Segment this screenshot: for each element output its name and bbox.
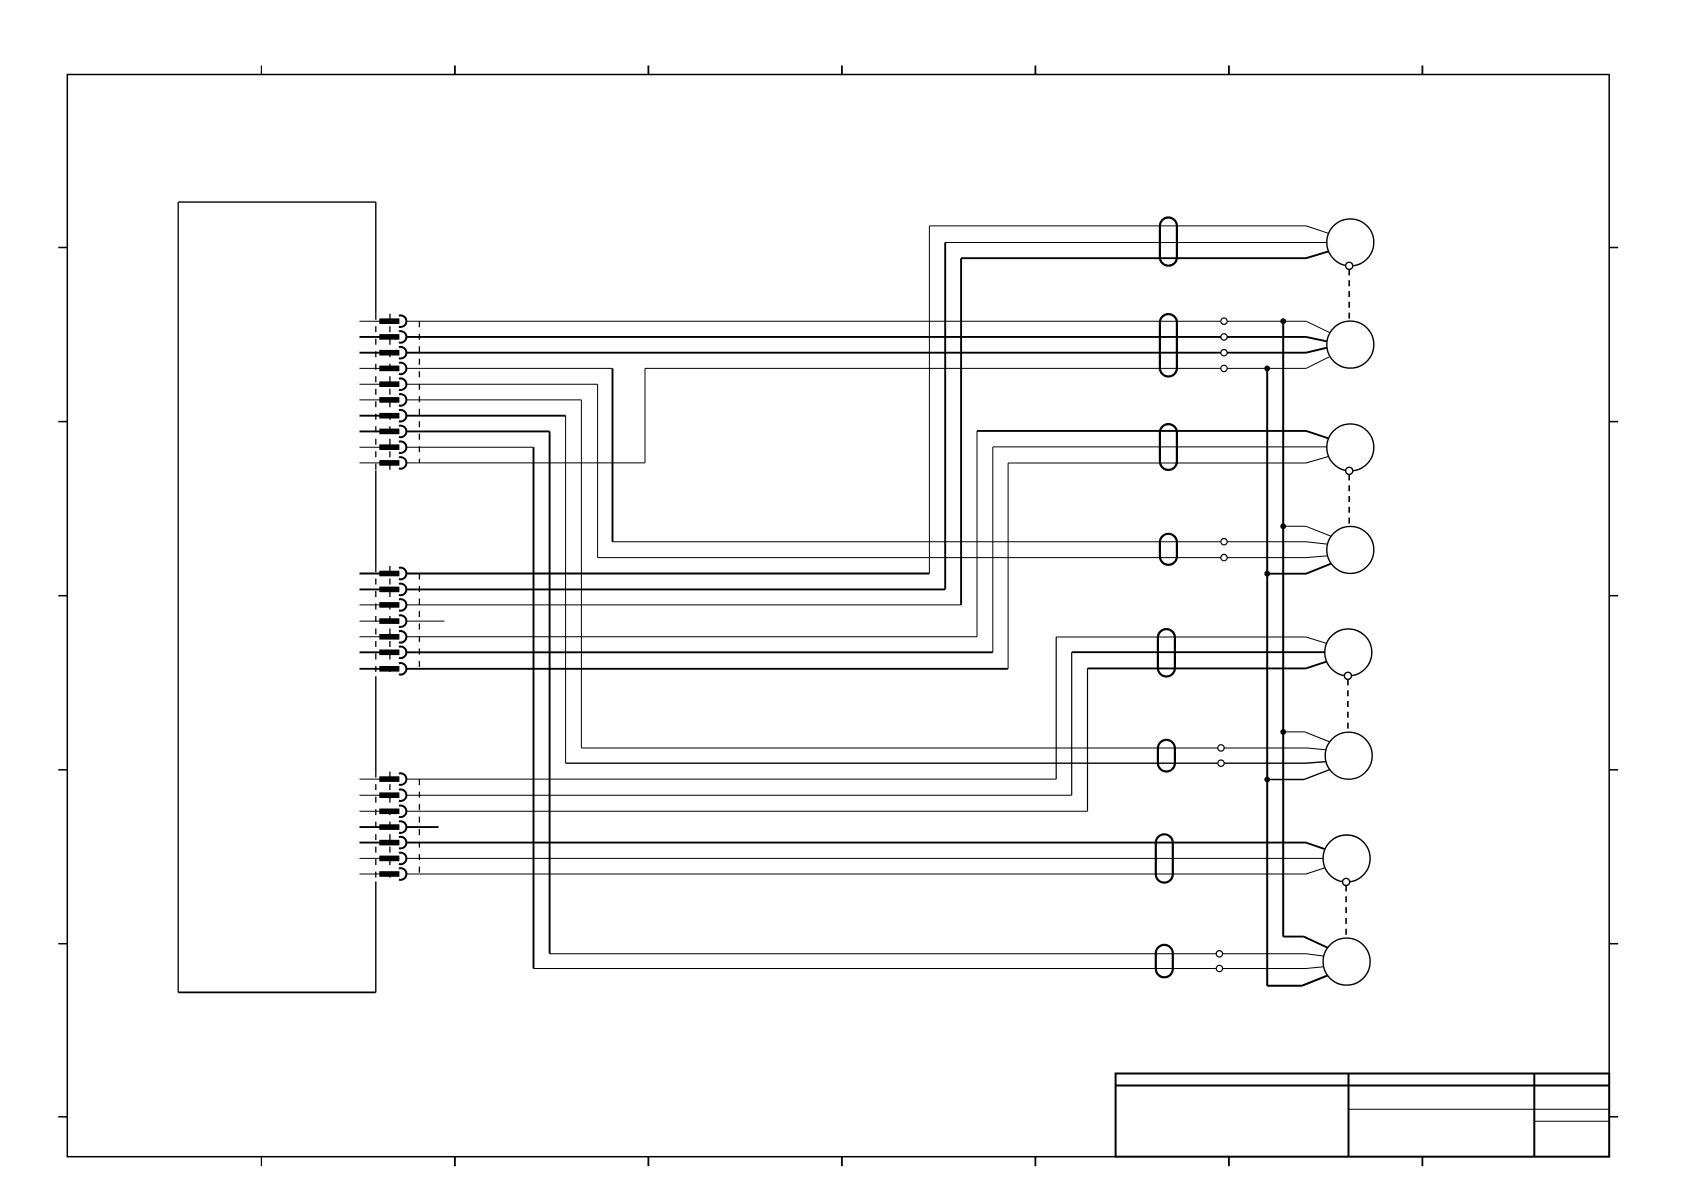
wire riser G3-3/B5	[1087, 668, 1089, 811]
wire riser G1-10/B2	[644, 368, 646, 463]
dashed link B1-B2	[1348, 269, 1350, 321]
wire G1-8 east	[406, 430, 550, 432]
wire to lamp B1 mid	[945, 242, 1327, 244]
dashed link B7-B8	[1345, 886, 1347, 939]
lamp B2	[1327, 321, 1374, 368]
connector pin G2-5	[360, 631, 407, 643]
wire slant B2 w4	[1306, 357, 1329, 369]
wire riser G2-2/B1	[944, 243, 946, 590]
wire to lamp B6 mid2	[566, 762, 1306, 764]
wire to lamp B5 mid	[1072, 651, 1325, 653]
wire to lamp B6 mid1	[581, 747, 1306, 749]
wire slant B8 mid2	[1306, 967, 1325, 969]
bulb terminal circle B5-B6	[1344, 672, 1351, 679]
wire riser G3-2/B5	[1071, 652, 1073, 795]
wire to lamp B3 mid	[993, 446, 1327, 448]
inline connector C1	[1160, 218, 1177, 266]
wire G3-7 to lamp B7	[406, 873, 1306, 875]
wire slant B6 mid2	[1306, 762, 1327, 764]
wire slant B6 tap-top	[1305, 732, 1333, 743]
wire G2-4 stub	[406, 620, 445, 622]
lamp B7	[1323, 835, 1370, 882]
wire G3-2 east	[406, 794, 1072, 796]
wire G2-2 east	[406, 588, 945, 590]
wire to lamp B4 mid2	[598, 557, 1306, 559]
connector pin G1-7	[360, 410, 407, 422]
wire slant B8 tap-top	[1304, 937, 1331, 950]
connector pin G2-6	[360, 646, 407, 658]
dashed link B3-B4	[1348, 474, 1350, 526]
wire G3-3 east	[406, 810, 1088, 812]
splice circle	[1221, 554, 1227, 560]
dashed link B5-B6	[1347, 679, 1349, 732]
splice circle	[1221, 539, 1227, 545]
splice circle	[1221, 334, 1227, 340]
bus wire B vertical	[1266, 368, 1268, 985]
lamp B4	[1327, 526, 1374, 573]
wire riser G3-1/B5	[1055, 637, 1057, 779]
wire drop G1-8/B8	[549, 431, 551, 953]
bulb terminal circle B7-B8	[1343, 878, 1350, 885]
wire slant B2 w2	[1306, 337, 1327, 341]
splice circle	[1218, 760, 1224, 766]
junction bus A / B6 tap	[1280, 729, 1286, 735]
wire slant B3 bottom	[1306, 456, 1332, 463]
connector pin G1-3	[360, 347, 407, 359]
wire G1-4 east	[406, 367, 613, 369]
wire to lamp B8 mid1	[550, 953, 1306, 955]
wire drop G1-6/B6	[580, 400, 582, 748]
wire slant B5 top	[1306, 637, 1330, 644]
wire to lamp B2 pin4	[645, 367, 1306, 369]
connector pin G1-1	[360, 315, 407, 327]
wire G3-5 to lamp B7	[406, 842, 1306, 844]
wire G2-5 east	[406, 636, 977, 638]
connector pin G1-8	[360, 426, 407, 438]
lamp B8	[1323, 938, 1370, 985]
wire slant B4 tap-top	[1306, 526, 1335, 537]
connector pin G3-7	[360, 868, 407, 880]
splice circle	[1216, 965, 1222, 971]
wire to lamp B8 mid2	[534, 968, 1307, 970]
bus wire A vertical	[1282, 321, 1284, 936]
inline connector C3	[1160, 424, 1177, 470]
connector pin G3-5	[360, 837, 407, 849]
wire slant B2 w1	[1306, 321, 1329, 332]
connector pin G1-10	[360, 457, 407, 469]
inline connector C8	[1156, 945, 1173, 977]
wire to lamp B4 mid1	[613, 541, 1307, 543]
wire G2-7 east	[406, 668, 1008, 670]
wire G1-6 east	[406, 399, 582, 401]
splice circle	[1221, 318, 1227, 324]
wire bus tap to lamp B4 top	[1283, 525, 1306, 527]
connector pin G1-4	[360, 363, 407, 375]
connector pin G2-2	[360, 584, 407, 596]
wire G1-2 to lamp B2	[406, 336, 1306, 338]
wire slant B1 top	[1306, 226, 1332, 234]
wire slant B3 top	[1306, 431, 1332, 440]
wire to lamp B1 top	[929, 225, 1306, 227]
connector pin G1-6	[360, 394, 407, 406]
splice circle	[1221, 350, 1227, 356]
inline connector C5	[1158, 629, 1175, 676]
connector pin G1-9	[360, 441, 407, 453]
junction bus A / B2 wire	[1280, 318, 1286, 324]
inline connector C2	[1160, 314, 1177, 376]
lamp B6	[1325, 732, 1372, 779]
connector pin G2-3	[360, 599, 407, 611]
junction bus B / B4 tap	[1264, 571, 1270, 577]
connector pin G3-4	[360, 821, 407, 833]
junction bus B / B6 tap	[1264, 777, 1270, 783]
wire to lamp B5 bottom	[1088, 667, 1307, 669]
splice circle	[1221, 365, 1227, 371]
wire slant B4 tap-bottom	[1306, 562, 1335, 573]
wire slant B2 w3	[1306, 348, 1327, 353]
connector pin G2-7	[360, 663, 407, 675]
inline connector C4	[1160, 534, 1177, 565]
wire bus elbow to lamp B8 top	[1283, 936, 1304, 938]
wire drop G1-7/B6	[565, 416, 567, 764]
wire G1-1 to lamp B2	[406, 320, 1306, 322]
wire G1-7 east	[406, 415, 566, 417]
wire riser G2-6/B3	[992, 447, 994, 652]
connector pin G3-6	[360, 853, 407, 865]
wire G3-6 to lamp B7	[406, 857, 1323, 859]
wire drop G1-9/B8	[533, 447, 535, 968]
wire riser G2-1/B1	[928, 226, 930, 574]
wire G2-6 east	[406, 651, 993, 653]
connector pin G2-1	[360, 568, 407, 580]
wire slant B6 tap-bottom	[1304, 768, 1333, 779]
connector pin G3-1	[360, 773, 407, 785]
wire G2-3 east	[406, 604, 961, 606]
connector pin G3-3	[360, 805, 407, 817]
connector pin G1-5	[360, 378, 407, 390]
wire slant B4 mid1	[1306, 542, 1328, 545]
wire drop G1-5/B4	[597, 384, 599, 557]
inline connector C7	[1156, 834, 1173, 882]
lamp B3	[1327, 424, 1374, 471]
wire slant B7 bottom	[1306, 867, 1328, 874]
junction bus A / B4 tap	[1280, 523, 1286, 529]
wire slant B6 mid1	[1306, 748, 1327, 750]
splice circle	[1216, 951, 1222, 957]
wire bus elbow to lamp B8 bottom	[1267, 985, 1302, 987]
wire G3-4 stub	[406, 826, 439, 828]
wire slant B8 mid1	[1306, 954, 1325, 957]
wire drop G1-4/B4	[612, 368, 614, 541]
wire G1-10 east	[406, 462, 645, 464]
wire G1-9 east	[406, 446, 534, 448]
lamp B5	[1325, 629, 1372, 676]
wire slant B8 tap-bottom	[1302, 974, 1331, 986]
control unit box U1	[178, 202, 376, 992]
wire G1-5 east	[406, 383, 598, 385]
wire riser G2-7/B3	[1007, 463, 1009, 669]
wire bus tap to lamp B6 bottom	[1267, 779, 1304, 781]
connector outline J3 (dashed)	[376, 772, 420, 882]
lamp B1	[1327, 219, 1374, 266]
wire slant B4 mid2	[1306, 556, 1328, 558]
connector pin G2-4	[360, 615, 407, 627]
wire bus tap to lamp B6 top	[1283, 731, 1304, 733]
wire to lamp B5 top	[1056, 636, 1306, 638]
wire to lamp B3 bottom	[1008, 462, 1306, 464]
bulb terminal circle B1-B2	[1346, 262, 1353, 269]
wire G2-1 east	[406, 573, 930, 575]
wire slant B7 top	[1306, 843, 1328, 851]
wire to lamp B1 bottom	[961, 257, 1306, 259]
wire riser G2-3/B1	[960, 258, 962, 605]
inline connector C6	[1158, 740, 1175, 772]
wire G1-3 to lamp B2	[406, 352, 1306, 354]
wire slant B1 bottom	[1306, 251, 1332, 259]
connector outline J1 (dashed)	[376, 314, 420, 471]
wire G3-1 east	[406, 778, 1056, 780]
connector outline J2 (dashed)	[376, 566, 420, 676]
junction bus B / B2 wire	[1264, 366, 1270, 372]
connector pin G3-2	[360, 789, 407, 801]
wire riser G2-5/B3	[976, 431, 978, 637]
wire slant B5 bottom	[1306, 661, 1330, 669]
splice circle	[1218, 745, 1224, 751]
connector pin G1-2	[360, 331, 407, 343]
wire bus tap to lamp B4 bottom	[1267, 573, 1306, 575]
bulb terminal circle B3-B4	[1346, 467, 1353, 474]
wire to lamp B3 top	[977, 430, 1306, 432]
